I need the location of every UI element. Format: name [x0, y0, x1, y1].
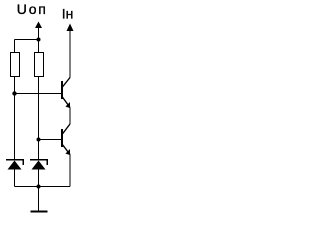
transistor Q1	[62, 78, 70, 109]
Uоп supply arrow	[35, 22, 42, 29]
Iн output arrow	[67, 24, 74, 32]
wire: R1 bottom lead	[14, 77, 16, 94]
wire: left drop to R1	[14, 40, 16, 53]
svg-text:Uоп: Uоп	[17, 1, 48, 17]
node: junction dot Q2 base tap	[37, 138, 41, 142]
wire: base bus to Q1	[15, 93, 62, 95]
wire: Q2 emitter down to bottom bus	[69, 155, 71, 187]
wire: bottom bus	[15, 186, 71, 188]
wire: Q2 base link	[39, 139, 62, 141]
node: junction dot R1/bus	[12, 91, 16, 95]
transistor Q2	[62, 124, 70, 155]
svg-text:Iн: Iн	[62, 6, 74, 22]
diode D1	[6, 160, 23, 187]
wire: Q1 emitter to Q2 collector	[69, 108, 71, 125]
node: junction dot ground tap	[37, 185, 41, 189]
wire: R2 bottom lead down through bus to D2	[38, 77, 40, 160]
wire: Uоп arrow stem down to R2	[38, 27, 40, 53]
resistor R1	[11, 53, 20, 77]
node: junction dot at arrow/link	[37, 38, 41, 42]
wire: left drop to D1	[14, 94, 16, 160]
wire: horizontal link Uоп node	[15, 39, 39, 41]
ground	[31, 187, 48, 212]
wire: Iн rail down to Q1 collector	[69, 30, 71, 78]
resistor R2	[35, 53, 44, 77]
diode D2	[30, 160, 47, 187]
